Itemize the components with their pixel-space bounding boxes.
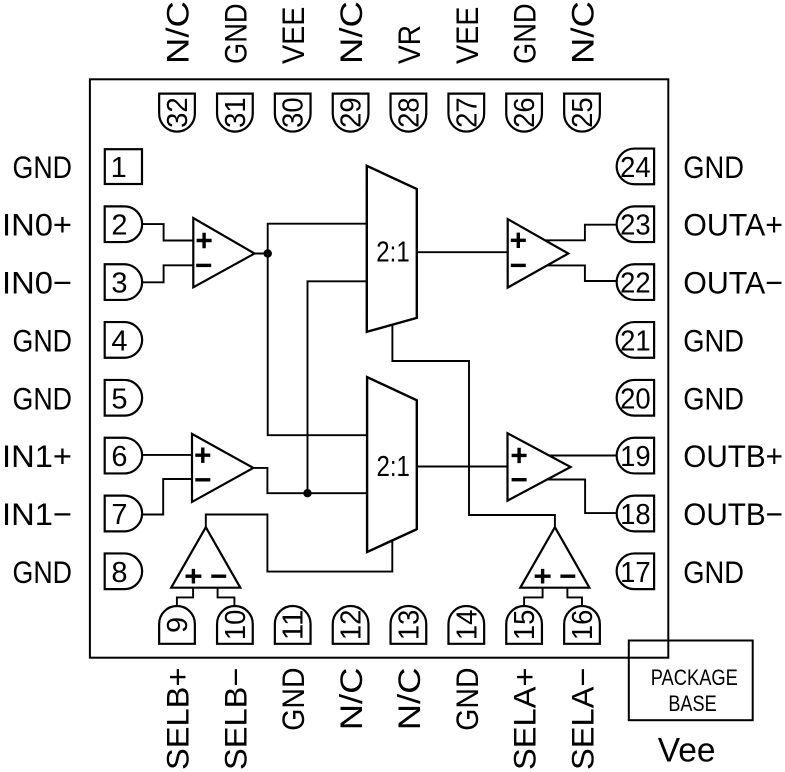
- selB plus: [186, 569, 202, 584]
- svg-text:IN1−: IN1−: [2, 496, 72, 532]
- bufB minus: [195, 478, 210, 481]
- svg-text:GND: GND: [275, 668, 311, 731]
- svg-text:GND: GND: [683, 554, 744, 590]
- svg-text:19: 19: [620, 441, 651, 473]
- mux U2 (2:1): [367, 377, 417, 552]
- pin 17: [617, 553, 654, 589]
- ACTIVE ELEMENTS: [171, 218, 589, 588]
- svg-text:12: 12: [336, 610, 368, 641]
- svg-text:BASE: BASE: [668, 691, 716, 716]
- wire pin7 to bufB - input: [142, 479, 200, 515]
- svg-text:OUTA−: OUTA−: [683, 265, 783, 301]
- svg-text:N/C: N/C: [333, 1, 369, 64]
- svg-text:7: 7: [111, 499, 127, 531]
- pin 32: [159, 94, 195, 132]
- wire select buffer B output to mux U2 select: [206, 515, 392, 572]
- svg-text:IN0−: IN0−: [2, 265, 72, 301]
- wire mux U2 output to bufD input: [412, 466, 515, 468]
- svg-text:32: 32: [162, 97, 194, 128]
- pin 19: [617, 438, 654, 474]
- pin 5: [105, 380, 142, 416]
- svg-text:2:1: 2:1: [377, 451, 410, 483]
- pin 31: [217, 94, 253, 132]
- pin 9: [159, 606, 195, 644]
- pin 28: [391, 94, 427, 132]
- svg-text:N/C: N/C: [565, 1, 601, 64]
- svg-text:24: 24: [620, 152, 651, 184]
- svg-text:GND: GND: [217, 3, 253, 64]
- svg-text:26: 26: [509, 97, 541, 128]
- pin 21: [617, 322, 654, 358]
- pin 4: [105, 322, 142, 358]
- op-amp input buffer A (IN0): [193, 218, 254, 287]
- node A junction dot: [264, 249, 272, 257]
- wire pin3 to bufA - input: [142, 265, 200, 282]
- svg-text:20: 20: [620, 383, 651, 415]
- svg-text:IN1+: IN1+: [2, 438, 72, 474]
- pin 23: [617, 206, 654, 242]
- svg-text:8: 8: [111, 557, 127, 589]
- pin 30: [275, 94, 311, 132]
- package base box: [629, 641, 753, 721]
- wire bufB output to node B and mux U2 input 2: [247, 468, 372, 493]
- pin 2: [105, 206, 142, 242]
- svg-text:21: 21: [620, 325, 651, 357]
- wire node A down to mux U2 input 1: [268, 254, 372, 436]
- select buffer A (SELA): [520, 527, 589, 588]
- svg-text:GND: GND: [449, 668, 485, 731]
- wire pin16 to select buffer A - input: [567, 584, 582, 610]
- svg-text:GND: GND: [683, 149, 744, 185]
- svg-text:14: 14: [451, 610, 483, 641]
- selA minus: [560, 575, 575, 578]
- svg-text:22: 22: [620, 268, 651, 300]
- svg-text:N/C: N/C: [391, 668, 427, 731]
- svg-text:13: 13: [393, 610, 425, 641]
- wire bufC + output to pin 23: [540, 225, 620, 241]
- op-amp output buffer C (OUTA): [508, 219, 569, 288]
- pin 24: [617, 149, 654, 185]
- svg-text:SELB−: SELB−: [217, 668, 253, 771]
- bufC plus: [511, 233, 526, 248]
- pin 8: [105, 553, 142, 589]
- svg-text:GND: GND: [13, 380, 73, 416]
- wire bufC - output to pin 22: [540, 265, 620, 281]
- svg-text:PACKAGE: PACKAGE: [651, 665, 738, 690]
- wire pin6 to bufB + input: [142, 454, 200, 456]
- pin 16: [564, 606, 600, 644]
- svg-text:IN0+: IN0+: [2, 207, 72, 243]
- svg-text:SELA+: SELA+: [507, 668, 543, 771]
- svg-text:Vee: Vee: [658, 732, 716, 770]
- op-amp input buffer B (IN1): [192, 434, 253, 502]
- pin 10: [217, 606, 253, 644]
- pin 29: [333, 94, 369, 132]
- svg-text:11: 11: [278, 610, 310, 641]
- pin 13: [391, 606, 427, 644]
- pin 14: [448, 606, 484, 644]
- WIRES (drawn first, shapes overlay): [142, 224, 620, 610]
- svg-text:9: 9: [162, 617, 194, 633]
- wire pin2 to bufA + input: [142, 224, 200, 240]
- svg-text:GND: GND: [13, 322, 73, 358]
- svg-text:25: 25: [567, 97, 599, 128]
- pin 6: [105, 438, 142, 474]
- op-amp output buffer D (OUTB): [508, 433, 571, 501]
- bufD plus: [512, 448, 527, 463]
- wire select buffer A output to mux U1 select: [392, 320, 555, 527]
- svg-text:SELA−: SELA−: [565, 668, 601, 771]
- selA plus: [535, 569, 551, 584]
- svg-text:VR: VR: [391, 25, 427, 64]
- bufD minus: [512, 478, 527, 481]
- svg-text:5: 5: [111, 383, 127, 415]
- svg-text:1: 1: [111, 152, 127, 184]
- mux U1 (2:1): [367, 166, 417, 332]
- pin 27: [448, 94, 484, 132]
- svg-text:OUTA+: OUTA+: [683, 207, 783, 243]
- svg-text:GND: GND: [683, 380, 744, 416]
- pin 1 (square): [105, 149, 142, 184]
- svg-text:2: 2: [111, 210, 127, 242]
- wire bufA output to node A: [248, 253, 268, 255]
- svg-text:27: 27: [451, 97, 483, 128]
- svg-text:16: 16: [567, 610, 599, 641]
- svg-text:28: 28: [393, 97, 425, 128]
- pin 11: [275, 606, 311, 644]
- svg-text:GND: GND: [507, 3, 543, 64]
- svg-text:18: 18: [620, 499, 651, 531]
- wire bufD + output to pin 19: [540, 455, 620, 457]
- wire mux U1 output to bufC input: [412, 251, 515, 253]
- chip package outline: [90, 79, 668, 657]
- PINS: [105, 94, 654, 644]
- wire bufD - output to pin 18: [540, 480, 620, 514]
- svg-text:31: 31: [220, 97, 252, 128]
- pin 22: [617, 264, 654, 300]
- svg-text:4: 4: [111, 325, 127, 357]
- svg-text:2:1: 2:1: [376, 236, 409, 268]
- wire node A up to mux U1 input 1: [268, 224, 372, 254]
- pin 15: [506, 606, 542, 644]
- svg-text:10: 10: [220, 610, 252, 641]
- svg-text:30: 30: [278, 97, 310, 128]
- svg-text:OUTB+: OUTB+: [683, 438, 783, 474]
- svg-text:GND: GND: [683, 322, 744, 358]
- svg-text:6: 6: [111, 441, 127, 473]
- wire pin15 to select buffer A + input: [524, 584, 543, 610]
- wire mux U1 input 2 from node B: [308, 281, 373, 493]
- pin 25: [564, 94, 600, 132]
- pin 26: [506, 94, 542, 132]
- svg-text:15: 15: [509, 610, 541, 641]
- bufC minus: [511, 264, 526, 267]
- wire pin10 to select buffer B - input: [218, 584, 235, 610]
- svg-text:SELB+: SELB+: [160, 668, 196, 771]
- pin 3: [105, 264, 142, 300]
- svg-text:VEE: VEE: [275, 7, 311, 64]
- svg-text:23: 23: [620, 210, 651, 242]
- svg-text:OUTB−: OUTB−: [683, 496, 783, 532]
- pin 7: [105, 496, 142, 532]
- svg-text:17: 17: [620, 557, 651, 589]
- selB minus: [211, 575, 226, 578]
- svg-text:GND: GND: [13, 554, 73, 590]
- pin 18: [617, 496, 654, 532]
- svg-text:29: 29: [336, 97, 368, 128]
- svg-text:N/C: N/C: [333, 668, 369, 731]
- node B junction dot: [303, 489, 311, 497]
- pin 12: [333, 606, 369, 644]
- svg-text:N/C: N/C: [160, 1, 196, 64]
- wire pin9 to select buffer B + input: [177, 584, 193, 610]
- bufA plus: [197, 233, 212, 248]
- svg-text:GND: GND: [13, 149, 73, 185]
- pin 20: [617, 380, 654, 416]
- bufB plus: [195, 448, 210, 463]
- bufA minus: [196, 264, 211, 267]
- svg-text:3: 3: [111, 268, 127, 300]
- plus/minus marks: [186, 233, 576, 584]
- svg-text:VEE: VEE: [449, 7, 485, 64]
- select buffer B (SELB): [171, 527, 240, 588]
